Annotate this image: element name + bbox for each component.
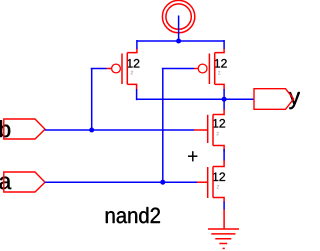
node: output junction xyxy=(222,97,227,102)
pmos P2 xyxy=(194,48,224,89)
nmos N1 xyxy=(194,109,224,152)
wire: b riser to P1 gate xyxy=(91,69,93,132)
wire: output to N1 drain xyxy=(223,98,225,109)
label N1 width 12 xyxy=(213,119,225,128)
label y (export name) xyxy=(289,92,300,109)
label N2 length subscript xyxy=(217,185,219,189)
pin a (input export) xyxy=(4,172,45,192)
pin y (output export) xyxy=(254,89,294,110)
label a (export name) xyxy=(0,177,11,190)
ground xyxy=(208,209,239,248)
wire: N1 source to N2 drain xyxy=(223,149,225,160)
label b (export name) xyxy=(0,120,10,137)
node: a junction xyxy=(160,180,165,185)
label nand2 (cell name) xyxy=(106,207,160,223)
label P1 width 12 xyxy=(127,59,139,68)
wire: b input line xyxy=(45,129,194,131)
label P2 length subscript xyxy=(218,71,220,75)
nmos N2 xyxy=(197,160,224,202)
pmos P1 xyxy=(107,48,137,89)
label P1 length subscript xyxy=(131,71,133,75)
label P2 width 12 xyxy=(215,59,227,68)
label N2 width 12 xyxy=(213,173,225,182)
pin b (input export) xyxy=(4,119,45,139)
plus mark (cell center) xyxy=(188,151,197,161)
wire: supply stub xyxy=(178,16,180,43)
wire: a riser to P2 gate xyxy=(162,69,164,184)
wire: P1 gate stub xyxy=(91,68,107,70)
wire: rail drop to P1 source xyxy=(136,40,138,49)
wire: rail drop to P2 source xyxy=(223,40,225,49)
wire: a input line xyxy=(45,181,197,183)
node: b junction xyxy=(89,128,94,133)
wire: P2 drain drop xyxy=(223,89,225,100)
wire: top rail xyxy=(137,40,224,42)
wire: output line xyxy=(137,98,254,100)
label N1 length subscript xyxy=(217,132,219,136)
power symbol VDD (double circle) xyxy=(162,0,194,32)
wire: P2 gate stub xyxy=(162,68,194,70)
wire: N2 source to ground lead xyxy=(223,202,225,210)
node: rail-supply junction xyxy=(176,39,181,44)
wire: P1 drain drop xyxy=(136,89,138,100)
